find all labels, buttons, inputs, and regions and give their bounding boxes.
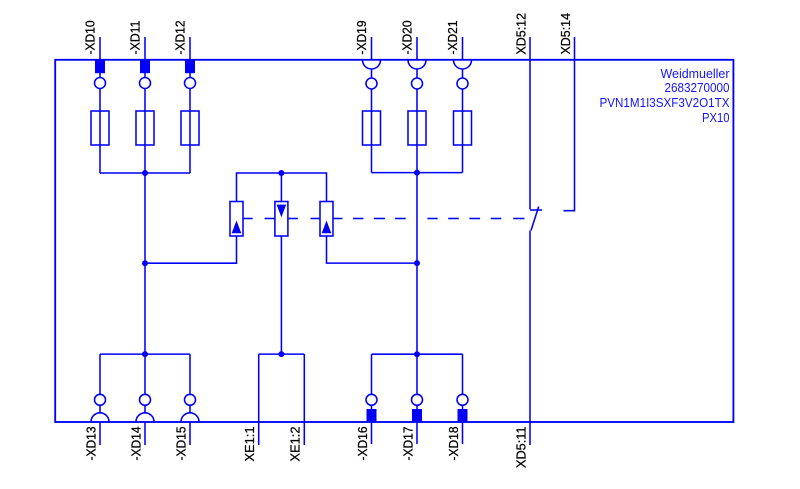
linkage dashed line (243, 218, 253, 220)
terminal circle XD17 (412, 394, 423, 405)
svg-text:-XD20: -XD20 (401, 20, 415, 54)
socket arc XD14 (136, 413, 154, 422)
terminal circle XD16 (366, 394, 377, 405)
svg-text:-XD21: -XD21 (446, 20, 460, 54)
terminal pin square XD11 (140, 60, 150, 73)
wire XD17 drop (416, 354, 418, 444)
svg-text:PVN1M1I3SXF3V2O1TX: PVN1M1I3SXF3V2O1TX (600, 95, 730, 110)
wire bus XD16-XD18 (372, 353, 463, 355)
wire XD12 vertical (189, 37, 191, 173)
arrester A1 box (230, 202, 243, 237)
wire bus XD10-XD12 (100, 172, 190, 174)
wire XD14 drop (144, 354, 146, 413)
svg-text:-XD13: -XD13 (85, 426, 99, 460)
wire node263 to left arrester bottom (145, 236, 237, 263)
switch S1 blade (531, 207, 539, 231)
arrester A1 arrow up (232, 221, 242, 234)
svg-text:PX10: PX10 (702, 110, 730, 125)
terminal circle XD15 (185, 394, 196, 405)
wire XD13 stub below (99, 422, 101, 445)
wire XD11 bus to node at y263 (144, 173, 146, 354)
terminal circle XD14 (140, 394, 151, 405)
socket arc XD21 (454, 60, 472, 69)
socket arc XD15 (181, 413, 199, 422)
svg-text:XE1:2: XE1:2 (289, 426, 303, 461)
terminal pin square XD12 (185, 60, 195, 73)
socket arc XD19 (363, 60, 381, 69)
svg-text:-XD15: -XD15 (175, 426, 189, 460)
wire XD15 stub below (189, 422, 191, 445)
terminal circle XD10 (95, 78, 106, 89)
svg-text:-XD10: -XD10 (84, 20, 98, 54)
terminal pin square XD10 (95, 60, 105, 73)
svg-text:-XD19: -XD19 (355, 20, 369, 54)
junction node left y263 (142, 260, 148, 266)
wire bus XD19-XD21 (372, 172, 463, 174)
wire XE1:2 vertical (303, 354, 305, 445)
wire bus XD13-XD15 (100, 353, 190, 355)
wire XD13 drop (99, 354, 101, 413)
svg-text:XE1:1: XE1:1 (243, 426, 257, 461)
wire XE1:1 vertical (258, 354, 260, 445)
terminal pin square XD17 (412, 409, 422, 422)
fuse F3 at XD12 (181, 111, 199, 145)
terminal circle XD19 (366, 78, 377, 89)
wire XD5:11 vertical (529, 231, 531, 446)
svg-text:Weidmueller: Weidmueller (661, 66, 731, 81)
wire XD5:14 vertical with contact end (564, 37, 575, 211)
svg-text:-XD14: -XD14 (130, 426, 144, 460)
terminal pin square XD18 (458, 409, 468, 422)
svg-text:-XD16: -XD16 (356, 426, 370, 460)
terminal circle XD12 (185, 78, 196, 89)
switch S1 fixed contact tick (530, 209, 542, 211)
junction node right y263 (414, 260, 420, 266)
wire middle arrester top stub (280, 173, 282, 202)
terminal circle XD13 (95, 394, 106, 405)
svg-text:XD5:14: XD5:14 (559, 13, 573, 55)
wire arrester top bus (237, 173, 327, 202)
wire XD16 drop (371, 354, 373, 444)
junction node XE1 bus (278, 351, 284, 357)
wire bus XE1 (259, 353, 305, 355)
wire XD20 vertical (416, 37, 418, 60)
socket arc XD20 (408, 60, 426, 69)
fuse F1 at XD10 (91, 111, 109, 145)
wire XD21 vertical (462, 37, 464, 60)
terminal circle XD20 (412, 78, 423, 89)
svg-text:-XD12: -XD12 (174, 20, 188, 54)
svg-text:-XD17: -XD17 (402, 426, 416, 460)
svg-text:XD5:12: XD5:12 (515, 13, 529, 55)
wire XD19 vertical (371, 37, 373, 60)
arrester A3 arrow up (322, 221, 332, 234)
arrester A2 box (275, 202, 288, 237)
svg-text:-XD18: -XD18 (447, 426, 461, 460)
svg-text:-XD11: -XD11 (129, 20, 143, 54)
fuse F5 at XD20 (408, 111, 426, 145)
fuse F4 at XD19 (363, 111, 381, 145)
fuse F2 at XD11 (136, 111, 154, 145)
wire XD11 vertical (144, 37, 146, 173)
wire XD5:12 vertical (529, 37, 531, 209)
socket arc XD13 (91, 413, 109, 422)
device outline box (55, 60, 733, 422)
junction node arrester top bus (278, 170, 284, 176)
wire XD18 drop (462, 354, 464, 444)
wire XD14 stub below (144, 422, 146, 445)
wire XD15 drop (189, 354, 191, 413)
wire right arrester bottom to XD20 line (327, 236, 418, 263)
junction node XD14 bus (142, 351, 148, 357)
svg-text:XD5:11: XD5:11 (515, 426, 529, 468)
junction node XD17 bus (414, 351, 420, 357)
junction node XD11 bus (142, 170, 148, 176)
terminal circle XD21 (457, 78, 468, 89)
terminal circle XD11 (140, 78, 151, 89)
svg-text:2683270000: 2683270000 (665, 80, 730, 95)
terminal circle XD18 (457, 394, 468, 405)
wire XD10 vertical (99, 37, 101, 173)
junction node XD20 bus (414, 170, 420, 176)
arrester A3 box (320, 202, 333, 237)
fuse F6 at XD21 (454, 111, 472, 145)
arrester A2 arrow down (277, 205, 287, 218)
terminal pin square XD16 (367, 409, 377, 422)
wire middle arrester bottom to XE1 bus (280, 236, 282, 354)
